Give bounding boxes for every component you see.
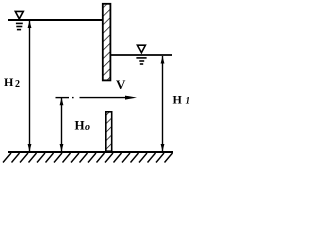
channel bed (ground) line <box>8 151 173 153</box>
dimension line H1 (vertical, arrows both ends) <box>161 56 165 152</box>
svg-text:H: H <box>75 118 85 133</box>
sill (hatched block on bed) <box>106 112 112 151</box>
downstream water level symbol (nabla) <box>136 45 146 64</box>
svg-text:V: V <box>116 77 126 92</box>
upstream water level symbol (nabla) <box>15 11 23 29</box>
svg-text:H: H <box>4 75 14 89</box>
dimension line H0 (vertical, arrows both ends) <box>60 98 64 152</box>
centerline (dash-dot) with flow arrow <box>56 97 128 99</box>
svg-text:1: 1 <box>186 96 191 106</box>
ground hatching <box>3 153 173 163</box>
svg-text:2: 2 <box>15 79 20 90</box>
svg-text:H: H <box>173 93 183 107</box>
svg-text:o: o <box>85 122 90 133</box>
dimension line H2 (vertical, arrows both ends) <box>28 21 32 152</box>
gate (hatched vertical plate) <box>103 4 111 81</box>
downstream water surface line <box>111 54 172 56</box>
upstream water surface line <box>8 19 102 21</box>
